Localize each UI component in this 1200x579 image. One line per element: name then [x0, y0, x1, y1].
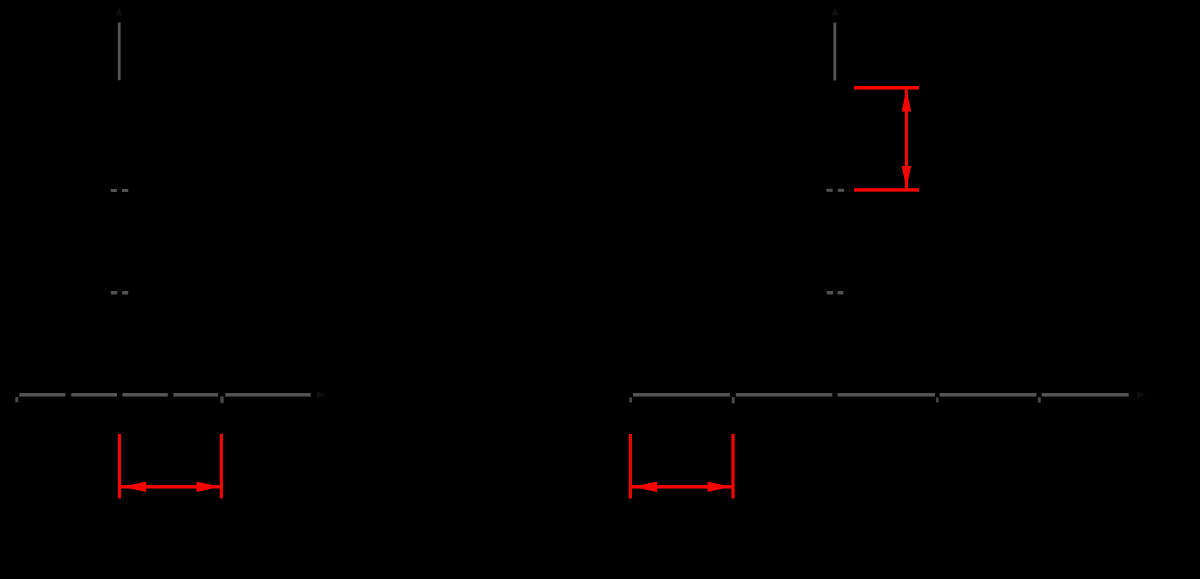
amplitude dimension: bottom red reference line	[854, 188, 919, 191]
wavelength dimension: right red extension line	[220, 434, 223, 498]
left plot axis tick at x=222	[220, 397, 223, 404]
right plot -A dashed level marker (row at y~292)	[827, 291, 844, 295]
right plot y-axis arrowhead (faint)	[832, 7, 839, 16]
period dimension: left red extension line	[629, 434, 632, 499]
right plot axis tick at x=1039.4	[1038, 397, 1041, 402]
left plot -A dashed level marker (row at y~292)	[111, 291, 128, 295]
right plot x-axis arrowhead (faint)	[1137, 391, 1146, 398]
left plot +A dashed level marker (row at y~190)	[111, 189, 128, 192]
amplitude dimension: top red reference line	[854, 86, 919, 90]
right plot axis tick at x=733.2	[732, 397, 735, 403]
period dimension: red double-headed arrow	[632, 482, 732, 492]
period dimension: right red extension line	[731, 434, 734, 499]
right plot y-axis (visible gray top segment)	[833, 23, 836, 81]
right plot x-axis (gray, with gaps where the black curve crosses)	[633, 393, 1129, 396]
wavelength dimension: red double-headed arrow	[121, 482, 220, 492]
right plot axis tick at x=937.2	[936, 397, 938, 402]
left plot x-axis (gray, with gaps where the black curve crosses)	[19, 393, 310, 396]
left plot axis tick at x=16.8	[15, 397, 18, 402]
left plot y-axis (visible gray top segment)	[118, 23, 121, 81]
right plot axis tick at x=630.7	[629, 397, 632, 402]
right plot +A dashed level marker (row at y~190)	[826, 189, 844, 192]
left plot x-axis arrowhead (faint)	[317, 391, 326, 398]
left plot y-axis arrowhead (faint)	[116, 7, 123, 16]
amplitude dimension: red vertical double-headed arrow	[902, 89, 912, 188]
wavelength dimension: left red extension line	[118, 434, 121, 498]
